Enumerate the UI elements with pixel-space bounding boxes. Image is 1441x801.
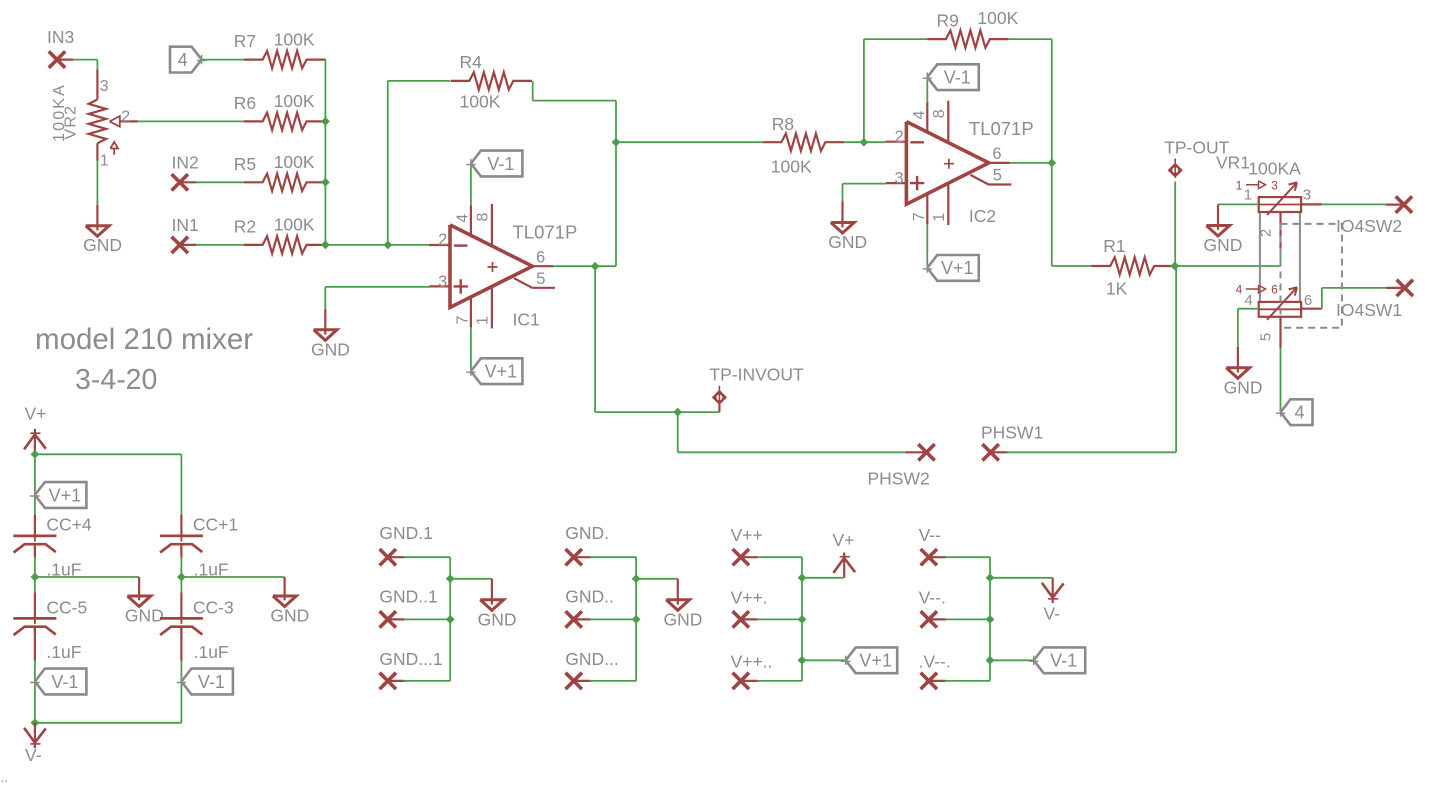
junction row2 <box>798 615 807 624</box>
wire R6 node to R5 node <box>324 121 326 182</box>
resistor R1 <box>1092 257 1173 274</box>
test point TP-OUT <box>1168 163 1183 178</box>
wire row3 <box>404 680 450 682</box>
no-connect X IN1 <box>172 237 188 253</box>
svg-text:5: 5 <box>1258 333 1275 341</box>
VR1 gang B wiper pin 5 <box>1279 316 1281 348</box>
svg-text:V+1: V+1 <box>49 485 82 505</box>
svg-text:GND...: GND... <box>565 649 618 669</box>
svg-text:model 210 mixer: model 210 mixer <box>35 323 253 356</box>
wire IC2 output down to R1 <box>1051 163 1053 266</box>
wire VR1 pin6 to IO4SW1 <box>1301 308 1322 310</box>
supply flag V-1 at IC2 <box>927 64 979 90</box>
wire IC2 output <box>1009 162 1051 164</box>
wire to R8 <box>616 141 763 143</box>
supply arrow V+ <box>34 429 36 454</box>
capacitor CC+1 <box>180 515 182 536</box>
svg-text:R7: R7 <box>234 31 256 51</box>
wire VR1 pin1 <box>1218 203 1259 205</box>
op-amp IC1 <box>429 204 555 328</box>
junction tap3 <box>986 656 995 665</box>
wire column <box>989 578 991 681</box>
junction R6 node <box>321 117 330 126</box>
wire VR2 pin1 to GND <box>96 160 98 205</box>
svg-text:R1: R1 <box>1103 236 1125 256</box>
ground GND at VR1 pin4 <box>1237 347 1239 373</box>
wire IC1 pin4 to V-1 <box>470 165 472 207</box>
wire tap3 to flag <box>990 659 1034 661</box>
wire VR1 pin3 to IO4SW2 <box>1301 203 1322 205</box>
svg-text:PHSW1: PHSW1 <box>981 423 1043 443</box>
junction IC1 output tap <box>591 262 600 271</box>
svg-text:V+1: V+1 <box>485 362 518 382</box>
svg-text:GND: GND <box>664 609 703 629</box>
no-connect X PHSW2 <box>906 451 927 453</box>
resistor R5 <box>244 174 325 191</box>
svg-text:V-1: V-1 <box>198 672 225 692</box>
svg-text:V-1: V-1 <box>1050 651 1077 671</box>
no-connect X GND... <box>566 673 582 689</box>
svg-text:V++..: V++.. <box>731 652 773 672</box>
svg-text:V++: V++ <box>731 525 763 545</box>
svg-text:TL071P: TL071P <box>969 118 1034 139</box>
junction gnd tap <box>632 574 641 583</box>
svg-text:IN2: IN2 <box>172 152 199 172</box>
svg-text:100K: 100K <box>274 91 315 111</box>
junction feedback tap <box>383 241 392 250</box>
junction R1 output node <box>1170 262 1179 271</box>
wire feedback left leg <box>387 81 389 245</box>
wire tap to GND <box>450 578 492 580</box>
wire summing node to IC1 pin2 <box>325 244 429 246</box>
svg-text:4: 4 <box>1294 403 1304 423</box>
wire to PHSW2 <box>677 412 679 452</box>
wire row1 <box>590 556 636 558</box>
resistor R2 <box>244 236 325 253</box>
svg-text:IO4SW1: IO4SW1 <box>1336 300 1402 320</box>
svg-text:V+1: V+1 <box>941 258 974 278</box>
svg-text:GND: GND <box>478 609 517 629</box>
junction V- rail <box>31 718 40 727</box>
svg-text:GND: GND <box>1204 235 1243 255</box>
wire V+ rail across <box>35 453 182 455</box>
svg-text:R5: R5 <box>234 154 256 174</box>
supply flag V-1 at IC1 <box>471 151 523 177</box>
svg-text:CC-3: CC-3 <box>193 597 234 617</box>
svg-text:V--.: V--. <box>919 588 946 608</box>
svg-text:1: 1 <box>1244 187 1252 204</box>
svg-text:3: 3 <box>1271 178 1278 192</box>
no-connect X V++ <box>733 549 749 565</box>
wire R1 node up to TP-OUT <box>1174 182 1176 267</box>
no-connect X V--. <box>921 611 937 627</box>
switch outline IO4SW dashed <box>1281 224 1342 328</box>
svg-text:PHSW2: PHSW2 <box>868 468 930 488</box>
junction TP-INVOUT tap <box>673 408 682 417</box>
svg-text:4: 4 <box>1245 292 1253 309</box>
wire row2 <box>757 618 802 620</box>
junction R8 tap <box>612 138 621 147</box>
svg-text:6: 6 <box>1271 283 1278 297</box>
wire mid rail to GND tap right <box>181 576 284 578</box>
flag net 4 top-left <box>170 47 202 73</box>
junction tap1 <box>798 573 807 582</box>
wire VR1 pin4 to GND <box>1238 308 1259 310</box>
wire R5 node to R2 node <box>324 182 326 245</box>
svg-text:CC+1: CC+1 <box>193 515 238 535</box>
svg-text:100K: 100K <box>274 152 315 172</box>
svg-text:TP-INVOUT: TP-INVOUT <box>709 364 804 384</box>
wire row3 <box>757 680 802 682</box>
potentiometer VR1 body <box>1260 200 1300 314</box>
wire row2 <box>404 618 450 620</box>
junction tap1 <box>986 573 995 582</box>
svg-text:R9: R9 <box>937 11 959 31</box>
no-connect X .V--. <box>921 673 937 689</box>
capacitor CC-5 <box>34 577 36 594</box>
VR1 gang B wiper arrow <box>1267 287 1297 320</box>
svg-text:3: 3 <box>100 78 109 95</box>
svg-text:1: 1 <box>1236 178 1243 192</box>
no-connect X PHSW1 <box>982 444 998 460</box>
svg-text:.V--.: .V--. <box>919 652 951 672</box>
wire row1 <box>404 556 450 558</box>
svg-text:GND: GND <box>1224 377 1263 397</box>
wire R8 to IC2 pin2 <box>844 141 886 143</box>
junction row2 <box>986 615 995 624</box>
ground GND left mid <box>138 577 140 578</box>
no-connect X GND.. <box>566 611 582 627</box>
wire row3 <box>945 680 990 682</box>
svg-text:100KA: 100KA <box>1248 159 1301 179</box>
wire row2 <box>945 618 990 620</box>
svg-text:V+: V+ <box>833 530 855 550</box>
svg-text:.1uF: .1uF <box>194 642 229 662</box>
wire IC2 pin3 to GND <box>843 183 887 185</box>
wire IC1 pin3 to GND corner <box>325 286 429 288</box>
capacitor CC-3 <box>180 577 182 594</box>
svg-text:IO4SW2: IO4SW2 <box>1336 216 1402 236</box>
ground GND at VR1 pin1 <box>1217 203 1219 206</box>
ground GND below VR2 <box>96 205 98 231</box>
supply flag V+1 at IC2 <box>927 255 979 281</box>
wire row2 <box>590 618 636 620</box>
svg-text:V++.: V++. <box>731 588 768 608</box>
wire R4 to output column <box>532 81 534 101</box>
resistor R6 <box>244 113 325 130</box>
svg-text:100K: 100K <box>771 156 812 176</box>
wire IN2 to R5 <box>196 181 245 183</box>
svg-text:R6: R6 <box>234 93 256 113</box>
supply arrow V- cluster <box>1052 578 1054 603</box>
VR1 gang A wiper pin 2 <box>1279 212 1281 249</box>
svg-text:GND: GND <box>311 339 350 359</box>
wire CC-5 to V- rail <box>34 660 36 723</box>
supply flag V-1 right <box>181 669 233 695</box>
no-connect X IN3 <box>49 51 65 67</box>
test point TP-INVOUT <box>718 405 720 413</box>
junction R5 node <box>321 178 330 187</box>
ground GND right mid <box>284 577 286 600</box>
supply flag V-1 left <box>35 669 87 695</box>
svg-text:.1uF: .1uF <box>46 642 81 662</box>
svg-text:V-1: V-1 <box>51 672 78 692</box>
svg-text:IC2: IC2 <box>969 206 996 226</box>
wire tap to GND <box>636 578 678 580</box>
svg-text:V-: V- <box>1044 604 1061 624</box>
wire output down to TP row <box>594 266 596 412</box>
wire IC2 pin4 to V-1 <box>926 78 928 102</box>
svg-text:100K: 100K <box>977 8 1018 28</box>
ground GND at IC2 pin3 <box>841 202 843 228</box>
svg-text:R4: R4 <box>460 52 483 72</box>
wire column <box>801 578 803 681</box>
svg-text:V+: V+ <box>25 404 47 424</box>
flag net 4 bottom <box>1281 399 1313 425</box>
supply flag V-1 cluster <box>1034 647 1086 673</box>
svg-text:GND: GND <box>270 606 309 626</box>
svg-text:IC1: IC1 <box>513 309 540 329</box>
ground GND cluster <box>677 579 679 605</box>
svg-text:GND..: GND.. <box>565 587 614 607</box>
wire IC2 pin7 to V+1 <box>926 224 928 267</box>
no-connect X V++.. <box>733 673 749 689</box>
wire to TP-INVOUT <box>595 411 719 413</box>
svg-text:CC+4: CC+4 <box>46 515 91 535</box>
resistor R7 <box>244 51 325 68</box>
junction row2 <box>632 615 641 624</box>
potentiometer VR2 <box>96 70 98 100</box>
no-connect X V-- <box>921 549 937 565</box>
svg-text:TL071P: TL071P <box>513 221 578 242</box>
junction row2 <box>446 615 455 624</box>
ground GND cluster <box>491 579 493 605</box>
svg-text:VR1: VR1 <box>1216 152 1250 172</box>
svg-text:GND.: GND. <box>565 523 609 543</box>
wire tap3 to flag <box>802 659 846 661</box>
wire tap1 to V+ arrow <box>802 577 844 579</box>
wire mid rail to GND tap left <box>35 576 139 578</box>
junction gnd tap <box>446 574 455 583</box>
wire IC1 output <box>553 265 616 267</box>
svg-text:GND: GND <box>125 606 164 626</box>
svg-text:1: 1 <box>100 153 109 170</box>
svg-text:VR2: VR2 <box>63 105 80 140</box>
wire flag4 to R7 <box>202 59 245 61</box>
svg-text:100K: 100K <box>460 92 501 112</box>
svg-text:V-1: V-1 <box>944 68 971 88</box>
VR1 gang B track <box>1259 302 1301 317</box>
wire R7 down to R6 node <box>324 59 326 122</box>
svg-text:6: 6 <box>1304 292 1312 309</box>
svg-text:GND..1: GND..1 <box>379 587 437 607</box>
svg-text:V--: V-- <box>919 525 942 545</box>
resistor R8 <box>763 134 844 151</box>
svg-text:GND.1: GND.1 <box>379 523 432 543</box>
svg-text:GND: GND <box>83 235 122 255</box>
supply flag V+1 on rail <box>35 482 87 508</box>
VR1 gang A track <box>1259 197 1301 212</box>
no-connect X IN2 <box>172 174 188 190</box>
junction R9 tap <box>860 138 869 147</box>
svg-text:GND...1: GND...1 <box>379 649 442 669</box>
svg-text:R2: R2 <box>234 216 256 236</box>
wire column <box>635 579 637 681</box>
svg-text:4: 4 <box>178 50 188 70</box>
wire column <box>449 579 451 681</box>
junction left mid rail <box>34 557 36 578</box>
svg-text:R8: R8 <box>772 114 794 134</box>
junction V+ rail <box>31 450 40 459</box>
junction tap3 <box>798 656 807 665</box>
wire IN1 to R2 <box>196 244 245 246</box>
no-connect X V++. <box>733 611 749 627</box>
supply flag V+1 cluster <box>846 647 898 673</box>
wire row1 <box>945 556 990 558</box>
wire PHSW1 to R1 node <box>1007 451 1177 453</box>
supply arrow V+ cluster <box>843 553 845 578</box>
wire row1 <box>757 556 802 558</box>
svg-text:V-1: V-1 <box>487 154 514 174</box>
junction R2 node <box>321 241 330 250</box>
wire R9 to output column <box>1009 38 1052 40</box>
wire V+ down left branch <box>34 454 36 516</box>
svg-text:GND: GND <box>828 232 867 252</box>
wire IC1 pin7 to V+1 <box>470 327 472 371</box>
VR1 gang A wiper arrow <box>1267 182 1297 215</box>
svg-text:..: .. <box>1 769 9 785</box>
svg-text:1K: 1K <box>1106 279 1128 299</box>
supply arrow V- <box>34 723 36 748</box>
svg-text:2: 2 <box>1258 229 1275 237</box>
svg-text:2: 2 <box>121 108 130 125</box>
no-connect X GND..1 <box>380 611 396 627</box>
no-connect X GND.1 <box>380 549 396 565</box>
wire R9 left leg <box>863 39 865 142</box>
wire VR1 pin5 to flag 4 <box>1280 347 1282 411</box>
no-connect X GND. <box>566 549 582 565</box>
svg-text:IN1: IN1 <box>172 215 199 235</box>
ground GND at IC1 pin3 <box>324 309 326 335</box>
junction IC2 output <box>1047 159 1056 168</box>
wire VR2 wiper to R6 <box>137 120 245 122</box>
wire R1 node to VR1 wiper <box>1175 265 1281 267</box>
svg-text:3-4-20: 3-4-20 <box>75 364 157 396</box>
svg-text:IN3: IN3 <box>47 27 74 47</box>
svg-text:V+1: V+1 <box>859 651 892 671</box>
svg-text:4: 4 <box>1236 283 1243 297</box>
junction right mid rail <box>180 557 182 578</box>
capacitor CC+4 <box>34 515 36 536</box>
supply flag V+1 at IC1 <box>471 358 523 384</box>
wire IN3 to VR2 pin3 <box>73 59 98 61</box>
svg-text:100K: 100K <box>274 215 315 235</box>
no-connect X IO4SW1 <box>1387 287 1405 289</box>
no-connect X IO4SW2 <box>1386 204 1404 206</box>
wire row3 <box>590 680 636 682</box>
wire tap1 to V- arrow <box>990 577 1053 579</box>
wire CC-3 to V- rail <box>180 660 182 723</box>
resistor R4 <box>451 72 532 89</box>
op-amp IC2 <box>886 101 1012 225</box>
svg-text:CC-5: CC-5 <box>46 597 87 617</box>
svg-text:V-: V- <box>25 745 42 765</box>
svg-text:3: 3 <box>1303 187 1311 204</box>
no-connect X GND...1 <box>380 673 396 689</box>
resistor R9 <box>927 30 1008 47</box>
svg-text:100K: 100K <box>274 29 315 49</box>
